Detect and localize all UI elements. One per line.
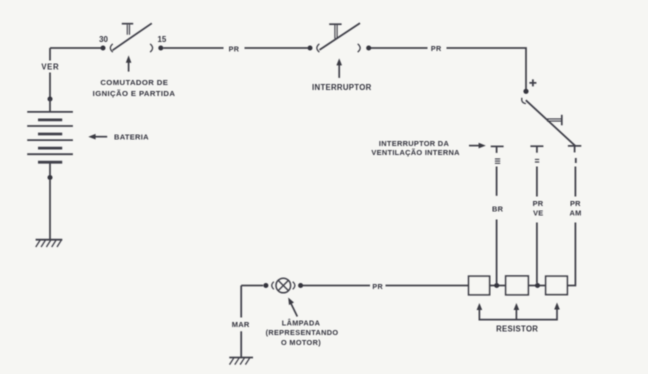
svg-text:VE: VE — [533, 209, 543, 218]
svg-text:VENTILAÇÃO INTERNA: VENTILAÇÃO INTERNA — [371, 148, 460, 157]
node: interruptor right — [366, 46, 371, 51]
svg-text:MAR: MAR — [232, 320, 250, 329]
wire: 15 to PR label — [163, 47, 223, 49]
switch S2 interruptor — [317, 23, 360, 52]
wire: junction to battery top plate — [49, 99, 51, 112]
svg-text:O MOTOR): O MOTOR) — [281, 338, 321, 347]
node: battery positive junction — [48, 97, 53, 102]
arrow to S1 — [126, 55, 132, 71]
wire MAR lower — [240, 331, 242, 357]
svg-text:PR: PR — [229, 44, 240, 53]
wire PR VE upper — [536, 167, 538, 197]
wire: battery bottom stub — [49, 163, 51, 175]
svg-text:IGNIÇÃO E PARTIDA: IGNIÇÃO E PARTIDA — [93, 89, 176, 98]
label BATERIA with arrow — [88, 132, 149, 141]
wire BR lower — [496, 220, 498, 284]
node: battery negative junction — [48, 175, 53, 180]
svg-text:VER: VER — [41, 63, 59, 72]
wire: lamp corner to lamp — [241, 285, 263, 287]
wire: battery negative to ground — [49, 180, 51, 240]
node + (ventilation switch common) — [523, 89, 528, 94]
label LÂMPADA (REPRESENTANDO O MOTOR) — [266, 319, 339, 347]
arrow to S2 — [336, 58, 342, 78]
svg-text:AM: AM — [570, 209, 582, 218]
wire: PR to interruptor — [245, 47, 308, 49]
wire PR AM lower, corner into R3 — [567, 223, 575, 286]
wire: lamp to PR label — [303, 285, 370, 287]
node 15 — [158, 46, 163, 51]
wire: node 30 feed (top-left horizontal) — [50, 47, 103, 49]
switch S1 comutador de ignição e partida — [110, 23, 152, 52]
node: R2-R3 junction — [535, 283, 540, 288]
switch S3 interruptor da ventilação interna — [522, 98, 575, 146]
node 30 — [101, 46, 106, 51]
node: lamp right — [298, 283, 303, 288]
wire: interruptor to PR label — [371, 47, 428, 49]
lamp L1 (representando o motor) — [272, 278, 295, 293]
wire MAR upper — [240, 286, 242, 318]
wire: PR to + node, corner down — [447, 48, 527, 89]
label + — [529, 79, 536, 86]
bracket + arrows for RESISTOR label — [477, 303, 560, 320]
pin label I — [575, 158, 577, 163]
wire VER: vertical from corner to battery — [49, 48, 51, 97]
svg-text:BR: BR — [492, 205, 504, 214]
node: interruptor left — [308, 46, 313, 51]
svg-text:INTERRUPTOR DA: INTERRUPTOR DA — [379, 139, 450, 148]
wire PR VE lower — [536, 223, 538, 284]
label PR VE — [533, 199, 544, 218]
label COMUTADOR DE IGNIÇÃO E PARTIDA — [93, 78, 176, 98]
svg-text:(REPRESENTANDO: (REPRESENTANDO — [266, 328, 339, 337]
label PR AM — [570, 199, 582, 218]
label INTERRUPTOR DA VENTILAÇÃO INTERNA with arrow — [371, 139, 485, 157]
wire R2-R3 — [528, 285, 545, 287]
svg-text:LÂMPADA: LÂMPADA — [282, 319, 321, 328]
pin label III (rotated) — [495, 159, 500, 163]
svg-text:PR: PR — [431, 44, 442, 53]
svg-text:RESISTOR: RESISTOR — [496, 324, 538, 333]
terminal I of S3 — [568, 146, 581, 153]
svg-text:PR: PR — [570, 199, 581, 208]
svg-text:INTERRUPTOR: INTERRUPTOR — [312, 83, 372, 92]
wire: PR to R1 — [386, 285, 469, 287]
arrow to lamp — [288, 298, 297, 317]
battery BATERIA (4 cells) — [27, 112, 73, 162]
resistor R3 — [546, 276, 568, 294]
svg-text:PR: PR — [533, 199, 544, 208]
terminal III of S3 — [491, 146, 504, 153]
wire PR AM upper — [574, 167, 576, 197]
svg-text:30: 30 — [99, 35, 108, 44]
svg-text:15: 15 — [158, 35, 167, 44]
ground: battery ground symbol — [36, 240, 63, 247]
node: lamp left — [263, 283, 268, 288]
wire BR upper — [496, 167, 498, 196]
resistor R2 — [506, 276, 529, 295]
terminal II of S3 — [530, 146, 543, 153]
pin label II (rotated) — [535, 159, 539, 162]
ground: lamp ground symbol — [229, 358, 253, 365]
wire R1-R2 — [490, 285, 506, 287]
svg-text:BATERIA: BATERIA — [114, 132, 149, 141]
svg-text:PR: PR — [372, 282, 383, 291]
resistor R1 — [469, 276, 490, 295]
node: R1-R2 junction — [494, 283, 499, 288]
svg-text:COMUTADOR DE: COMUTADOR DE — [100, 78, 168, 87]
